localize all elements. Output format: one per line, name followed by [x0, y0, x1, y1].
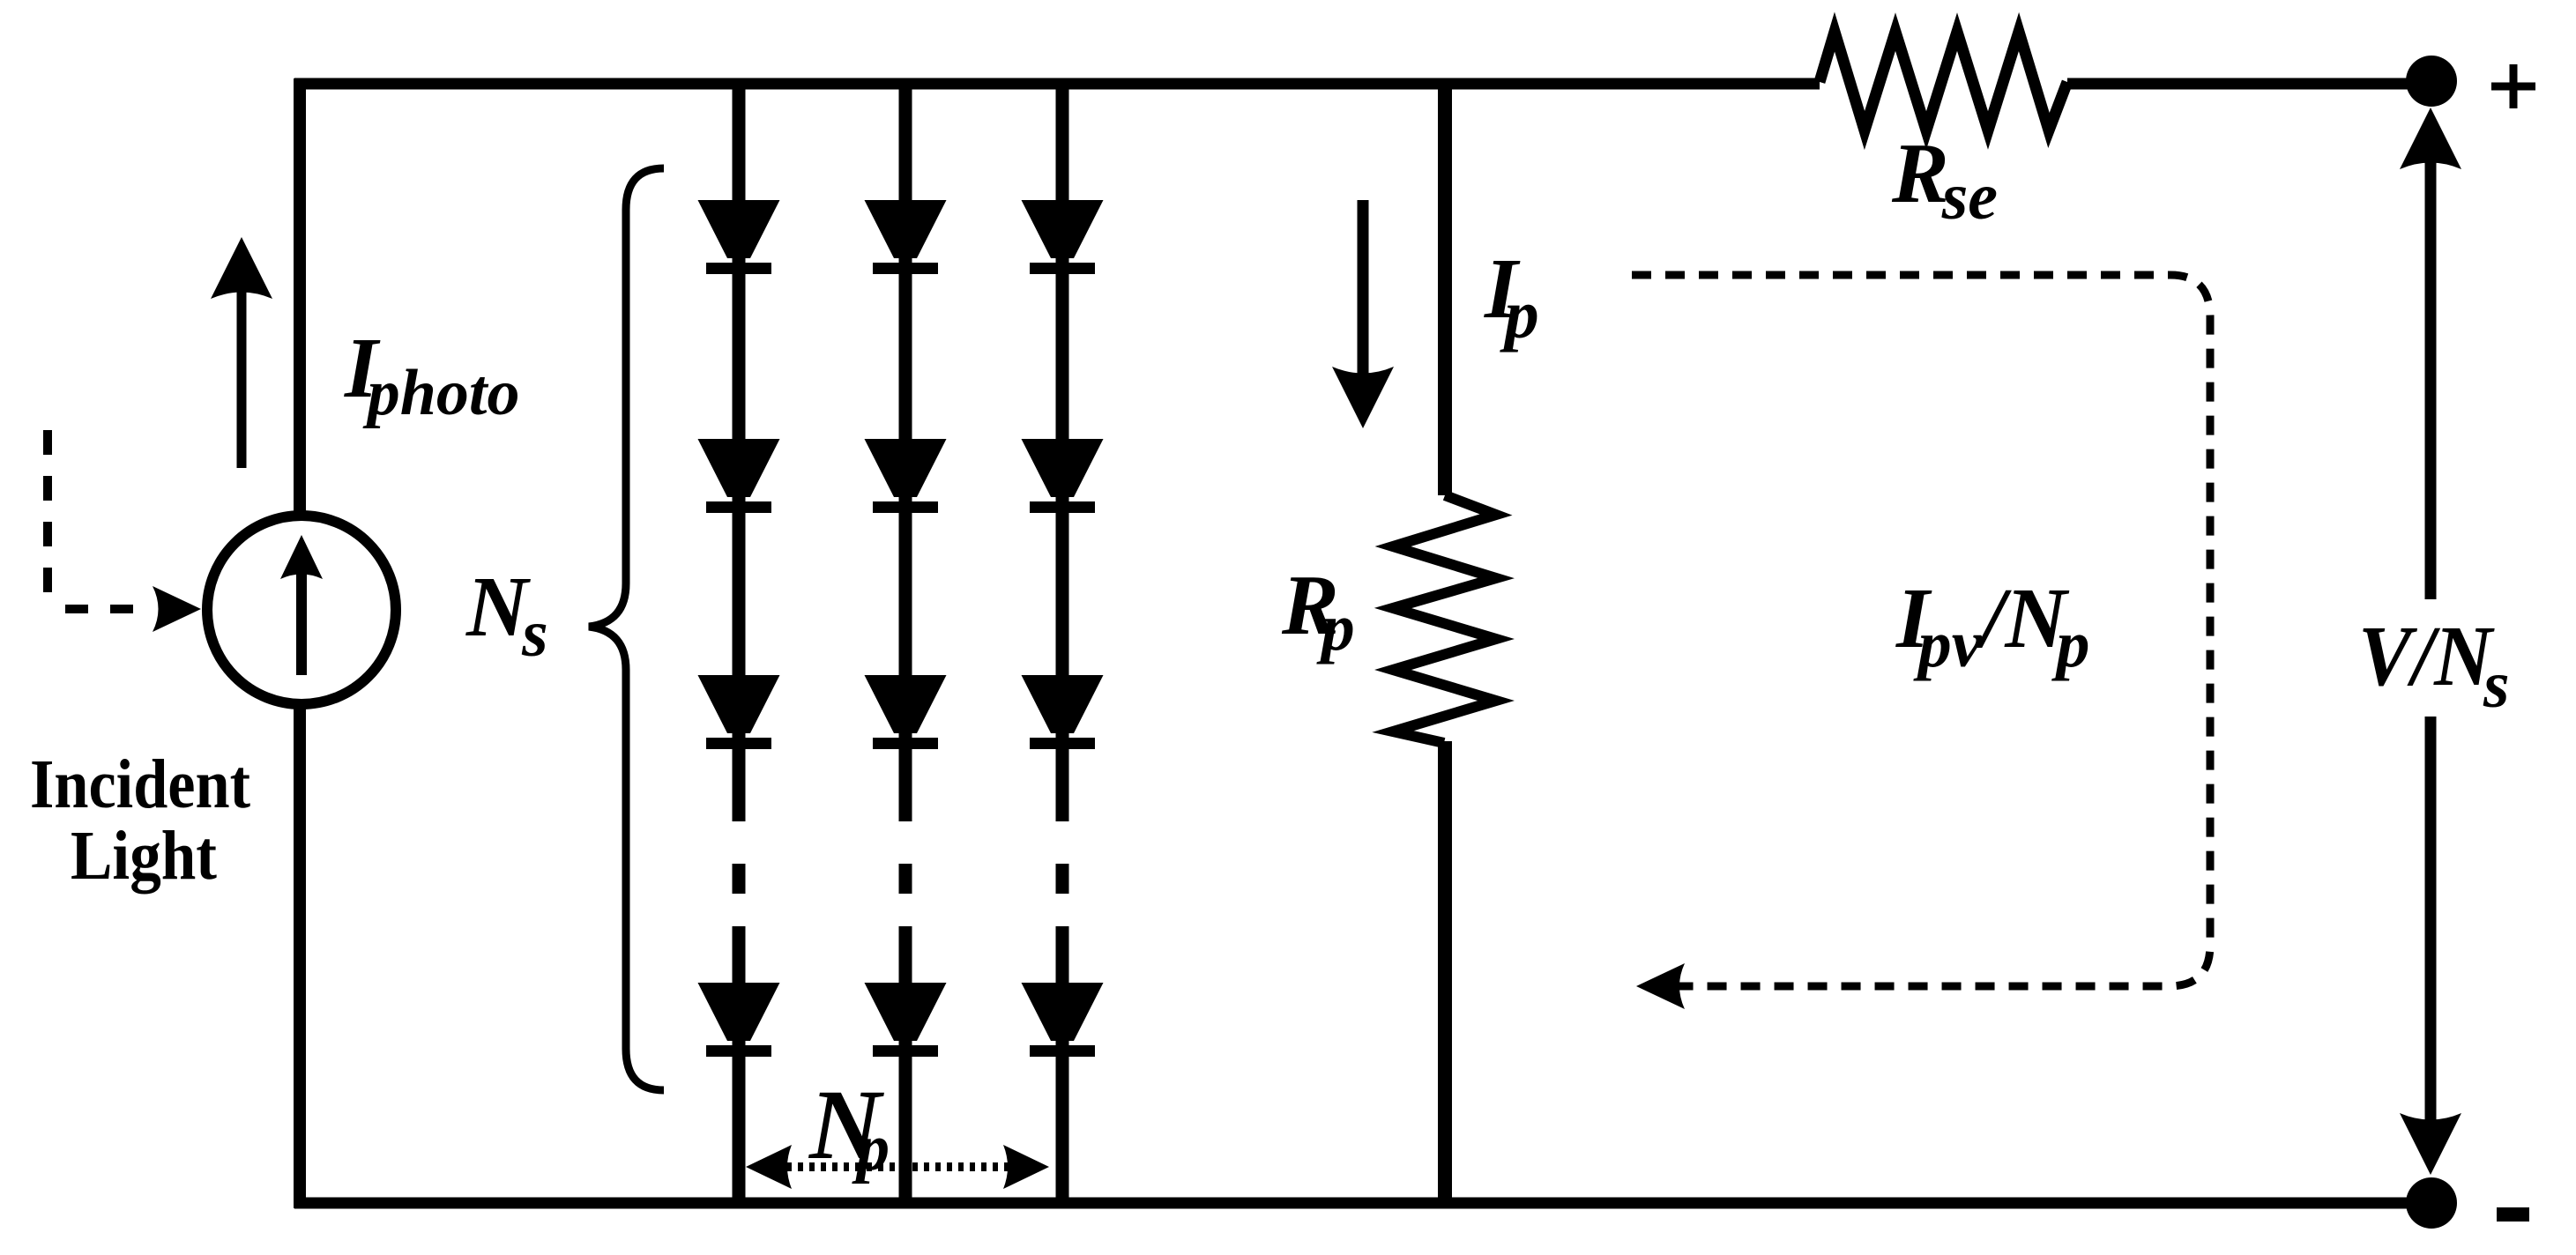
svg-text:Incident: Incident — [30, 746, 250, 823]
dashed loop I_pv/N_p — [1632, 275, 2210, 986]
arrow I_p — [1358, 200, 1369, 381]
wire bottom rail — [294, 1198, 2431, 1209]
diode D13 — [698, 675, 780, 749]
label + — [2491, 64, 2535, 108]
svg-text:s: s — [2483, 648, 2510, 722]
diode D31 — [1022, 200, 1104, 274]
current source I_photo circle — [207, 516, 396, 704]
diode D11 — [698, 200, 780, 274]
dashed loop arrowhead — [1636, 963, 1685, 1009]
diode D24 — [865, 983, 947, 1057]
diode D33 — [1022, 675, 1104, 749]
current source internal arrow — [296, 573, 307, 675]
diode column 1 wire — [733, 84, 746, 1203]
diode D32 — [1022, 439, 1104, 513]
diode D34 — [1022, 983, 1104, 1057]
label - — [2497, 1207, 2529, 1222]
dotted arrow N_p extent — [786, 1162, 1008, 1171]
node + terminal dot — [2406, 56, 2457, 107]
diode column 2 wire — [899, 84, 912, 1203]
V/N_s arrow lower — [2425, 717, 2437, 1128]
incident light dashed arrow — [43, 430, 52, 597]
brace N_s — [589, 168, 664, 1090]
diode column 1 dashed continuation — [733, 864, 746, 894]
diode D23 — [865, 675, 947, 749]
diode D12 — [698, 439, 780, 513]
resistor R_se zigzag — [1820, 32, 2067, 130]
diode D21 — [865, 200, 947, 274]
V/N_s arrow upper — [2425, 159, 2437, 599]
wire left vertical upper — [294, 78, 306, 515]
R_p branch wire upper — [1438, 84, 1452, 495]
wire left vertical lower — [294, 705, 306, 1208]
diode D22 — [865, 439, 947, 513]
svg-text:Ipv/Np: Ipv/Np — [1895, 571, 2089, 681]
diode column 3 dashed continuation — [1056, 864, 1069, 894]
svg-text:V/N: V/N — [2358, 609, 2495, 703]
diode column 3 wire — [1056, 84, 1069, 1203]
R_p branch wire lower — [1438, 741, 1452, 1203]
resistor R_p zigzag — [1393, 495, 1496, 743]
arrow I_photo — [237, 291, 247, 468]
diode D14 — [698, 983, 780, 1057]
diode column 2 dashed continuation — [899, 864, 912, 894]
svg-text:Light: Light — [71, 818, 217, 895]
node - terminal dot — [2406, 1177, 2457, 1229]
wire top rail — [294, 78, 1820, 90]
wire R_se to + node — [2067, 78, 2431, 90]
svg-text:Np: Np — [808, 1070, 890, 1184]
